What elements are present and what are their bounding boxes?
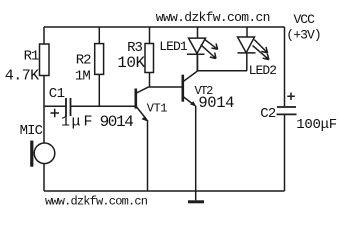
- svg-text:10K: 10K: [117, 54, 145, 72]
- svg-text:www.dzkfw.com.cn: www.dzkfw.com.cn: [45, 194, 148, 207]
- svg-text:9014: 9014: [100, 113, 134, 131]
- svg-text:VCC: VCC: [294, 12, 316, 27]
- svg-text:μ: μ: [72, 114, 81, 131]
- svg-text:C2: C2: [260, 106, 276, 122]
- svg-text:VT1: VT1: [147, 102, 168, 116]
- svg-text:www.dzkfw.com.cn: www.dzkfw.com.cn: [156, 10, 270, 25]
- svg-text:LED2: LED2: [249, 63, 277, 78]
- svg-text:C1: C1: [49, 86, 65, 102]
- svg-text:MIC: MIC: [20, 123, 43, 139]
- svg-text:F: F: [84, 114, 93, 131]
- svg-text:4.7K: 4.7K: [5, 68, 39, 85]
- svg-text:(+3V): (+3V): [286, 28, 321, 43]
- svg-text:1: 1: [61, 114, 70, 131]
- svg-text:LED1: LED1: [159, 39, 188, 54]
- svg-text:1M: 1M: [75, 69, 91, 85]
- svg-text:9014: 9014: [198, 94, 234, 112]
- svg-text:R1: R1: [24, 49, 39, 65]
- svg-text:R2: R2: [76, 53, 91, 69]
- svg-text:100μF: 100μF: [296, 117, 337, 133]
